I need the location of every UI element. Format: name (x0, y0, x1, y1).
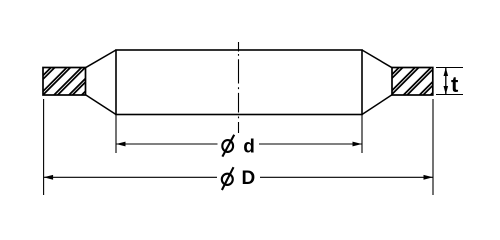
arrowhead phi-d left (116, 142, 126, 147)
arrowhead phi-D right (424, 175, 434, 180)
label phi symbol (phi-d) (222, 135, 234, 157)
centerline (dash-dot) (238, 42, 240, 133)
extension line t top (436, 67, 463, 69)
left section hatch (14, 58, 123, 105)
svg-text:d: d (243, 136, 255, 157)
extension line t bottom (436, 94, 463, 96)
svg-text:D: D (242, 168, 256, 189)
extension line phi-D right (432, 99, 434, 195)
extension line phi-D left (43, 99, 45, 195)
svg-text:t: t (451, 72, 459, 97)
arrowhead phi-d right (353, 142, 363, 147)
dimension line phi-d (116, 143, 362, 145)
taper line bottom-right (362, 95, 392, 115)
arrowhead t top (444, 68, 449, 77)
right section hatch (362, 58, 468, 105)
taper line top-left (86, 50, 117, 68)
arrowhead t bottom (444, 86, 449, 95)
label phi symbol (phi-D) (222, 167, 234, 190)
label d (243, 136, 255, 157)
dimension line t (445, 68, 447, 95)
taper line top-right (362, 50, 392, 68)
extension line phi-d left (115, 115, 117, 154)
left section rectangle (43, 68, 86, 96)
dimension line phi-D (44, 176, 433, 178)
extension line phi-d right (361, 115, 363, 154)
arrowhead phi-D left (44, 175, 54, 180)
main body outline (116, 50, 362, 115)
label t (451, 72, 459, 97)
right section rectangle (392, 68, 433, 96)
label D (242, 168, 256, 189)
taper line bottom-left (86, 95, 117, 115)
